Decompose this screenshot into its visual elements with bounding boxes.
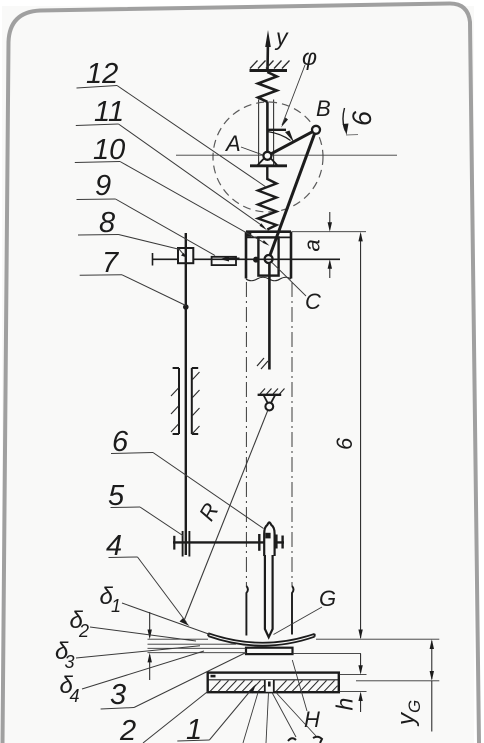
damper 9 <box>212 257 240 266</box>
gap label delta3 <box>55 638 200 672</box>
svg-text:3: 3 <box>65 652 75 672</box>
svg-text:2: 2 <box>78 621 89 641</box>
plate under blade <box>246 648 293 654</box>
angle phi reference line <box>267 129 286 131</box>
leader A <box>241 147 263 155</box>
svg-text:G: G <box>405 700 424 713</box>
svg-text:1: 1 <box>186 714 202 743</box>
leaders below base plate to cropped labels <box>243 693 316 743</box>
crank AB <box>267 130 316 156</box>
dimension yG <box>431 641 433 732</box>
crank circle (dashed path of B) <box>213 102 323 212</box>
svg-text:H: H <box>304 707 320 732</box>
dimension h <box>360 654 362 712</box>
sleeve wall left <box>246 586 293 636</box>
leader phi <box>282 65 305 125</box>
position label 6 <box>111 426 264 529</box>
leaf spring (curved shoe plate) <box>208 633 314 646</box>
svg-text:B: B <box>316 96 331 121</box>
position label 4 <box>106 530 190 626</box>
svg-text:11: 11 <box>94 96 124 128</box>
base plate with soil hatch <box>208 673 339 693</box>
gap datum lines <box>148 639 440 653</box>
gap label delta1 <box>100 583 211 635</box>
position label 7 <box>80 247 186 306</box>
position label 3 <box>101 653 246 712</box>
tamper blade <box>265 555 273 637</box>
gap label delta4 <box>60 651 205 706</box>
svg-text:12: 12 <box>86 58 118 90</box>
guide rails beside axis <box>259 100 274 166</box>
gap stack dimension arrows <box>149 612 151 680</box>
slider body (machine housing) <box>246 232 291 281</box>
svg-text:4: 4 <box>70 686 80 706</box>
crossbar left end cap <box>173 536 175 550</box>
dimension a extension lines <box>292 231 367 233</box>
gap label delta2 <box>70 607 197 641</box>
break marks <box>257 358 268 369</box>
position label 10 <box>75 134 270 246</box>
device box 8 <box>178 248 193 263</box>
tamper head <box>264 522 274 556</box>
angle phi arc <box>267 132 290 141</box>
spring upper (suspension spring) <box>258 72 277 102</box>
position label 1 <box>177 684 256 743</box>
position label 2 <box>119 692 208 743</box>
dimension b <box>360 234 362 638</box>
pin C <box>265 255 273 263</box>
svg-text:9: 9 <box>95 170 111 202</box>
cap left of tamper head <box>258 534 260 551</box>
left end cap <box>152 253 154 266</box>
housing centerline right <box>291 282 293 586</box>
junction dot at slider <box>253 257 259 263</box>
housing break line (wavy bottom) <box>246 277 291 281</box>
fixed pivot (mid) <box>258 395 282 411</box>
svg-text:a: a <box>300 239 325 251</box>
angle phi arc arrowhead <box>285 131 294 143</box>
ceiling hatching <box>250 61 290 69</box>
dimension h extensions <box>340 674 367 676</box>
slider (crosshead) inner <box>258 237 278 275</box>
cropped label fragments at bottom edge <box>288 738 296 741</box>
angular velocity arrow <box>343 108 346 131</box>
ground line for yG <box>356 680 439 682</box>
rod R from pivot to shoe <box>184 411 268 622</box>
sleeve on rod 7 <box>182 531 184 557</box>
svg-text:h: h <box>332 698 358 711</box>
position label 5 <box>108 480 184 536</box>
pivot A (pin support) <box>250 152 287 166</box>
housing centerline left <box>245 282 247 586</box>
guide bearing on rod 7 <box>173 368 199 434</box>
svg-text:7: 7 <box>102 247 120 279</box>
ceiling bar <box>250 69 288 72</box>
svg-text:2: 2 <box>119 715 136 743</box>
spring lower (between A and slider body) <box>258 167 277 230</box>
connecting rod BC <box>269 130 316 259</box>
position label 9 <box>77 170 216 256</box>
leader C <box>272 263 306 297</box>
rod 7 (vertical) <box>185 233 187 555</box>
y axis arrow <box>265 30 271 71</box>
svg-text:6: 6 <box>332 437 357 450</box>
svg-text:3: 3 <box>110 679 126 711</box>
piston rod below slider <box>268 264 271 370</box>
position label 12 <box>77 58 267 187</box>
position label 11 <box>76 96 267 230</box>
svg-text:A: A <box>224 131 241 156</box>
pin B <box>312 126 320 134</box>
svg-text:6: 6 <box>347 110 377 126</box>
horizontal link line through C <box>153 258 341 260</box>
caps right of tamper head <box>275 535 277 549</box>
svg-text:y: y <box>274 24 289 50</box>
fixed pivot (mid) hatching <box>260 389 285 395</box>
dimension a <box>329 212 331 278</box>
crossbar (rocker link) <box>173 541 284 543</box>
axis segment spring to A <box>266 102 269 153</box>
horizontal centerline through A <box>176 154 397 156</box>
svg-text:1: 1 <box>111 596 121 616</box>
anchor seam in base plate <box>265 680 275 692</box>
svg-text:C: C <box>305 289 321 314</box>
position label 8 <box>78 207 180 250</box>
junction dot on rod 7 <box>183 304 189 310</box>
guide hatching <box>171 372 200 434</box>
